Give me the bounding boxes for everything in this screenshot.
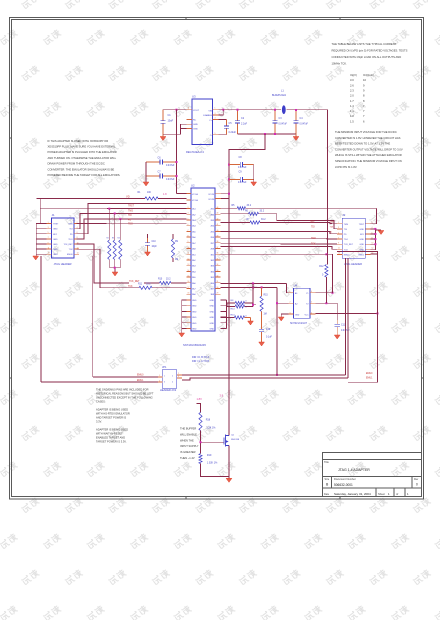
resistor R10 33.2 bbox=[144, 279, 171, 285]
svg-text:5: 5 bbox=[188, 218, 189, 220]
svg-text:33.2: 33.2 bbox=[146, 284, 151, 286]
wire VOUT to C1 bbox=[163, 109, 187, 111]
svg-text:VCCA: VCCA bbox=[192, 193, 198, 196]
svg-text:3.0: 3.0 bbox=[350, 78, 354, 82]
svg-text:GND: GND bbox=[53, 229, 58, 231]
svg-text:VCCA: VCCA bbox=[192, 199, 198, 202]
svg-text:GND: GND bbox=[53, 239, 58, 241]
svg-text:GND: GND bbox=[53, 249, 58, 251]
svg-text:TDI: TDI bbox=[128, 215, 132, 217]
svg-text:8: 8 bbox=[188, 236, 189, 238]
svg-text:7: 7 bbox=[48, 237, 49, 239]
svg-text:37: 37 bbox=[217, 247, 219, 249]
svg-text:R2: R2 bbox=[107, 238, 109, 240]
svg-text:2.6: 2.6 bbox=[350, 83, 354, 87]
svg-text:TMS: TMS bbox=[310, 222, 315, 224]
svg-text:CASES:: CASES: bbox=[96, 400, 106, 404]
svg-text:3: 3 bbox=[159, 380, 160, 382]
svg-text:0.22uF: 0.22uF bbox=[229, 131, 237, 134]
svg-text:3: 3 bbox=[48, 227, 49, 229]
wire rail row B7 bbox=[221, 246, 338, 249]
svg-text:ADAPTER IS BEING USED: ADAPTER IS BEING USED bbox=[96, 408, 128, 412]
svg-text:7: 7 bbox=[188, 230, 189, 232]
svg-text:TDI: TDI bbox=[344, 229, 348, 231]
svg-text:GND: GND bbox=[53, 254, 58, 256]
svg-text:KEY: KEY bbox=[53, 234, 58, 236]
svg-text:5: 5 bbox=[215, 133, 216, 135]
svg-text:34: 34 bbox=[217, 264, 219, 266]
net labels right rails 2 bbox=[311, 238, 316, 246]
svg-text:36: 36 bbox=[217, 253, 219, 255]
ground below right caps bbox=[251, 182, 257, 186]
svg-text:0.047uF: 0.047uF bbox=[238, 167, 247, 169]
svg-text:VD: VD bbox=[126, 194, 130, 198]
svg-text:16: 16 bbox=[188, 281, 190, 283]
svg-text:R15: R15 bbox=[264, 295, 269, 297]
wire pull resistor bottom bar bbox=[109, 267, 120, 272]
svg-text:C10: C10 bbox=[152, 241, 157, 243]
svg-text:UNCONNECTED EXCEPT IN THE FOLL: UNCONNECTED EXCEPT IN THE FOLLOWING bbox=[96, 396, 153, 400]
ground below pull resistors bbox=[112, 272, 118, 276]
svg-text:SPECIFICATION. THE MINIMUM VO: SPECIFICATION. THE MINIMUM VOLTAGE INPUT… bbox=[335, 159, 402, 163]
svg-text:VIN: VIN bbox=[208, 111, 212, 113]
svg-text:LVPD PIN IS 1.8V.: LVPD PIN IS 1.8V. bbox=[335, 165, 357, 169]
svg-text:Vq(V): Vq(V) bbox=[350, 73, 357, 77]
capacitors C8/C9 0.047uF (VCCB decoupling) bbox=[229, 156, 254, 184]
svg-text:DIR =0, B TO A: DIR =0, B TO A bbox=[192, 356, 210, 359]
svg-text:1M: 1M bbox=[175, 259, 178, 261]
svg-text:Date: Date bbox=[324, 493, 330, 496]
wire R19 bottom to Q1 source bbox=[201, 464, 230, 477]
svg-text:5: 5 bbox=[338, 232, 339, 234]
svg-text:TDO: TDO bbox=[311, 238, 316, 240]
wire U3 gnd pins bbox=[163, 124, 187, 134]
svg-text:1: 1 bbox=[164, 376, 165, 378]
svg-text:13: 13 bbox=[48, 253, 50, 255]
svg-text:18: 18 bbox=[188, 293, 190, 295]
svg-text:11: 11 bbox=[48, 247, 50, 249]
svg-text:TARGET POWER IS 3.3V.: TARGET POWER IS 3.3V. bbox=[96, 440, 127, 444]
wire rail TRST bbox=[40, 208, 44, 210]
net label TCK bbox=[128, 286, 133, 288]
svg-text:TRST: TRST bbox=[53, 224, 59, 226]
wire right cap ground column bbox=[253, 165, 255, 182]
svg-text:U4: U4 bbox=[294, 284, 298, 288]
svg-text:TMS: TMS bbox=[68, 224, 73, 226]
ground below R13 bbox=[248, 321, 254, 325]
svg-text:GND: GND bbox=[360, 244, 365, 246]
svg-text:1.8V: 1.8V bbox=[197, 397, 203, 401]
inductor L1 BLM2P222A bbox=[272, 90, 286, 115]
svg-text:40: 40 bbox=[217, 230, 219, 232]
svg-text:3: 3 bbox=[164, 382, 165, 384]
svg-text:0.047uF: 0.047uF bbox=[238, 182, 247, 184]
svg-text:4: 4 bbox=[311, 313, 312, 315]
svg-text:CONDUCTED WITH 33pF LOAD ON AL: CONDUCTED WITH 33pF LOAD ON ALL OUTPUTS … bbox=[332, 55, 402, 59]
svg-text:3: 3 bbox=[215, 113, 216, 115]
wire rail row A1 bbox=[44, 208, 187, 210]
svg-text:of: of bbox=[396, 492, 398, 496]
net label TCK_RET bbox=[129, 281, 140, 283]
svg-text:6: 6 bbox=[188, 224, 189, 226]
wire 3.3V rail down right side bbox=[327, 110, 329, 265]
svg-text:JP1: JP1 bbox=[162, 365, 167, 369]
svg-text:14: 14 bbox=[77, 253, 79, 255]
voltage regulator U3 REG710EA-3.3 bbox=[186, 95, 219, 155]
svg-text:GND: GND bbox=[210, 300, 215, 302]
svg-text:BSS138: BSS138 bbox=[231, 439, 240, 441]
svg-text:10MHz TCK.: 10MHz TCK. bbox=[332, 61, 348, 65]
wire rail TCK B lower bbox=[221, 286, 278, 288]
svg-text:GND: GND bbox=[192, 323, 197, 325]
resistor R8 0 ohm bbox=[227, 300, 247, 305]
svg-text:BLM2P222A: BLM2P222A bbox=[272, 94, 286, 97]
wire R15 to C13 bbox=[261, 312, 263, 328]
svg-text:WITH HS-RTDX EMULATOR: WITH HS-RTDX EMULATOR bbox=[96, 412, 130, 416]
svg-text:VCCB: VCCB bbox=[208, 194, 214, 196]
svg-text:TCK_RET: TCK_RET bbox=[344, 244, 354, 246]
svg-text:J2: J2 bbox=[342, 213, 345, 217]
svg-text:WILL ENABLE: WILL ENABLE bbox=[180, 432, 197, 436]
wire 1.8V net from VOUT down bbox=[176, 110, 178, 162]
svg-text:2: 2 bbox=[290, 302, 291, 304]
connector J2 JTAG HEADER (target side) bbox=[337, 213, 373, 266]
svg-text:GND: GND bbox=[53, 244, 58, 246]
wire rail TRST B bbox=[246, 207, 377, 209]
svg-text:GND: GND bbox=[360, 229, 365, 231]
wire U2 right GND collect bbox=[221, 300, 227, 329]
svg-text:TCK: TCK bbox=[69, 249, 74, 251]
resistor R18 1.2K 1% bbox=[199, 412, 216, 430]
svg-text:THE BUFFER: THE BUFFER bbox=[180, 427, 196, 431]
wire ENABLE tie to VIN bbox=[219, 110, 224, 115]
svg-text:GND: GND bbox=[192, 317, 197, 319]
wire rail row A0 bbox=[77, 204, 187, 234]
wire chip 3B1 to U4 Y1 bbox=[221, 254, 333, 292]
wire U4 Y2 to C11 bbox=[315, 302, 337, 320]
wire TRST jog to J2 bbox=[371, 208, 377, 224]
net label 1.8V buffer bbox=[197, 397, 203, 401]
svg-text:GND: GND bbox=[193, 129, 198, 131]
svg-text:EMU1: EMU1 bbox=[366, 377, 373, 379]
svg-text:R19: R19 bbox=[207, 454, 212, 457]
svg-text:ENABLE: ENABLE bbox=[203, 114, 212, 117]
svg-text:1M: 1M bbox=[264, 314, 267, 316]
svg-text:14: 14 bbox=[188, 270, 190, 272]
svg-text:33.2: 33.2 bbox=[247, 205, 252, 207]
svg-text:CONVERTER. THE EMULATOR SHOUL: CONVERTER. THE EMULATOR SHOULD ALWAYS BE bbox=[48, 167, 115, 171]
svg-text:1.8: 1.8 bbox=[163, 193, 167, 196]
svg-text:TCK_RET: TCK_RET bbox=[63, 244, 73, 246]
wire divider mid bbox=[200, 431, 225, 454]
wire rail TMS B bbox=[259, 214, 338, 229]
connector JP1 HEADER 2X2 bbox=[158, 365, 182, 392]
svg-text:1.02K 1%: 1.02K 1% bbox=[207, 462, 218, 465]
wire link B rails bbox=[252, 283, 254, 304]
svg-text:TRST: TRST bbox=[359, 224, 365, 226]
ground below C4 bbox=[293, 134, 299, 141]
ground right of J2 bbox=[378, 231, 384, 235]
svg-text:DRAW POWER FROM THROUGH THE DC: DRAW POWER FROM THROUGH THE DC/DC bbox=[48, 162, 105, 166]
svg-text:30: 30 bbox=[217, 287, 219, 289]
svg-text:33.2: 33.2 bbox=[261, 219, 266, 221]
note: current table bbox=[350, 73, 374, 123]
net label EMU1 left bbox=[137, 380, 144, 382]
svg-text:1.4: 1.4 bbox=[350, 104, 354, 108]
svg-text:R10: R10 bbox=[158, 279, 163, 281]
connector J1 JTAG HEADER (emulator side) bbox=[47, 213, 80, 266]
wire rail row B4 bbox=[221, 231, 338, 233]
resistor R9 1M bbox=[171, 234, 178, 262]
wire cap bottom rail bbox=[238, 133, 297, 135]
svg-text:1.1: 1.1 bbox=[350, 109, 354, 113]
svg-text:U2: U2 bbox=[191, 184, 195, 188]
svg-text:Document Number: Document Number bbox=[334, 477, 356, 481]
svg-text:PD: PD bbox=[128, 219, 132, 221]
svg-text:6: 6 bbox=[311, 291, 312, 293]
svg-text:REG710EA-3.3: REG710EA-3.3 bbox=[186, 150, 204, 154]
svg-text:15: 15 bbox=[188, 276, 190, 278]
ground below C10 bbox=[145, 250, 151, 256]
net label EMU0 right bbox=[366, 373, 373, 375]
svg-text:WHICH IS STILL WITHIN THE ATTA: WHICH IS STILL WITHIN THE ATTACHED EMULA… bbox=[335, 153, 402, 157]
svg-text:0.047uF: 0.047uF bbox=[300, 124, 309, 126]
svg-text:17: 17 bbox=[188, 287, 190, 289]
wire VCCB feed bbox=[228, 134, 265, 200]
wire rail TCK_RET B bbox=[221, 282, 289, 292]
svg-text:11: 11 bbox=[338, 248, 340, 250]
svg-text:GND: GND bbox=[192, 329, 197, 331]
wire J1 EMU0 vertical down bbox=[92, 256, 94, 377]
title block bbox=[323, 453, 422, 497]
svg-text:THE TABLE BELOW LISTS THE TYPI: THE TABLE BELOW LISTS THE TYPICAL CURREN… bbox=[332, 42, 397, 46]
resistor R14 0 ohm bbox=[227, 305, 247, 310]
svg-text:4: 4 bbox=[215, 118, 216, 120]
svg-text:JTAG HEADER: JTAG HEADER bbox=[54, 262, 72, 266]
svg-text:5: 5 bbox=[48, 232, 49, 234]
capacitor C4 0.047uF bbox=[293, 109, 308, 134]
resistor R6 33.2 (TMS B) bbox=[221, 210, 265, 215]
wire EMU loop right bbox=[337, 252, 378, 383]
svg-text:GND: GND bbox=[210, 323, 215, 325]
svg-text:506632-0001: 506632-0001 bbox=[334, 483, 353, 487]
wire EMU1 rail right bbox=[182, 378, 348, 380]
net labels left rails bbox=[128, 206, 135, 226]
svg-text:2: 2 bbox=[178, 373, 179, 375]
svg-text:THE GND/EMU0 PINS ARE INCLUDED: THE GND/EMU0 PINS ARE INCLUDED FOR bbox=[96, 388, 149, 392]
svg-text:13: 13 bbox=[338, 253, 340, 255]
svg-text:VCC: VCC bbox=[305, 315, 310, 317]
svg-text:11: 11 bbox=[188, 253, 190, 255]
wire R8/R14 join bbox=[245, 303, 256, 307]
svg-text:EMU0: EMU0 bbox=[67, 254, 73, 256]
wire left caps to VCCA bbox=[176, 161, 187, 194]
svg-text:CONVERTER IS 1.8V. HOWEVER TH: CONVERTER IS 1.8V. HOWEVER THE CIRCUIT H… bbox=[335, 136, 401, 140]
svg-text:GND: GND bbox=[210, 306, 215, 308]
wire VD rail bbox=[37, 197, 145, 199]
svg-text:42: 42 bbox=[217, 218, 219, 220]
svg-text:POWERED BEFORE THE TARGET FOR: POWERED BEFORE THE TARGET FOR ALL EMULAT… bbox=[48, 173, 121, 177]
svg-text:9: 9 bbox=[338, 243, 339, 245]
capacitor C13 0.1uF bbox=[259, 327, 272, 339]
resistor R12 0 bbox=[319, 253, 328, 303]
svg-text:6: 6 bbox=[188, 108, 189, 110]
capacitor C1 10uF bbox=[160, 110, 173, 135]
wire rail TCK B bbox=[260, 223, 337, 224]
svg-text:AND TURNED ON. OTHERWISE THE: AND TURNED ON. OTHERWISE THE EMULATOR WI… bbox=[48, 156, 117, 160]
svg-text:EMU0: EMU0 bbox=[366, 373, 373, 375]
svg-text:1.7: 1.7 bbox=[350, 99, 354, 103]
svg-text:ENABLED TARGET AND: ENABLED TARGET AND bbox=[96, 436, 125, 440]
wire U4 gnd pin bbox=[281, 314, 288, 317]
svg-text:R3: R3 bbox=[112, 238, 114, 240]
svg-text:3.3V.: 3.3V. bbox=[96, 420, 102, 424]
svg-text:Title: Title bbox=[324, 460, 329, 464]
svg-text:10: 10 bbox=[188, 247, 190, 249]
ground below U4 left bbox=[278, 317, 284, 321]
svg-text:HISTORICAL REASONS BUT SHOULD: HISTORICAL REASONS BUT SHOULD BE LEFT bbox=[96, 392, 154, 396]
svg-text:SN74AVCB324245: SN74AVCB324245 bbox=[183, 343, 206, 347]
wire TCK B vertical to EMU rail bbox=[276, 287, 289, 376]
ground below C11 bbox=[334, 331, 340, 339]
svg-text:TMS: TMS bbox=[128, 210, 133, 212]
svg-text:VCCB: VCCB bbox=[208, 199, 214, 201]
svg-text:EMU0: EMU0 bbox=[137, 374, 144, 376]
svg-text:TDO: TDO bbox=[128, 224, 133, 226]
svg-text:TCK: TCK bbox=[344, 249, 349, 251]
svg-text:10uF: 10uF bbox=[168, 120, 174, 123]
wire U4 VCC right bbox=[315, 312, 378, 314]
svg-text:2.3: 2.3 bbox=[350, 88, 354, 92]
svg-text:Saturday, January 31, 2004: Saturday, January 31, 2004 bbox=[334, 492, 371, 496]
capacitor C3 0.047uF bbox=[272, 109, 287, 134]
wire J1 left pins to ground bus bbox=[36, 224, 46, 255]
ground below C13 bbox=[259, 334, 265, 346]
resistor R13 0 ohm bbox=[221, 315, 248, 320]
sheet border frame bbox=[10, 18, 424, 500]
svg-text:TDI: TDI bbox=[330, 227, 334, 229]
wire R8 left join bbox=[226, 303, 228, 307]
svg-text:Size: Size bbox=[325, 478, 330, 481]
svg-text:AND TARGET POWER IS: AND TARGET POWER IS bbox=[96, 416, 126, 420]
svg-text:3: 3 bbox=[290, 313, 291, 315]
svg-text:R12: R12 bbox=[319, 266, 324, 268]
svg-text:0.047uF: 0.047uF bbox=[166, 179, 175, 181]
svg-text:GND: GND bbox=[295, 315, 300, 317]
wire R13 to ground bbox=[245, 318, 251, 322]
capacitors C6/C7 0.047uF (VCCA decoupling) bbox=[146, 157, 177, 181]
svg-text:GND: GND bbox=[360, 239, 365, 241]
svg-text:GND: GND bbox=[193, 124, 198, 126]
svg-text:GND: GND bbox=[210, 311, 215, 313]
svg-text:XDS510PP PLUS, MAKE SURE YOU H: XDS510PP PLUS, MAKE SURE YOU HAVE EXTERN… bbox=[48, 145, 116, 149]
svg-text:0.047uF: 0.047uF bbox=[279, 124, 288, 126]
svg-text:10pF: 10pF bbox=[152, 246, 158, 248]
wire R1 to VCCA2 bbox=[158, 197, 187, 199]
svg-text:4: 4 bbox=[188, 213, 189, 215]
svg-text:J1: J1 bbox=[52, 213, 55, 217]
net label VD bbox=[126, 194, 130, 198]
wire divider top bbox=[197, 403, 201, 412]
svg-text:29: 29 bbox=[217, 293, 219, 295]
svg-text:EMU1: EMU1 bbox=[358, 254, 364, 256]
svg-text:3: 3 bbox=[338, 227, 339, 229]
wire 3.3 net vertical to buffer enable bbox=[220, 200, 230, 436]
svg-text:HEADER 2X2: HEADER 2X2 bbox=[160, 388, 177, 392]
svg-text:2: 2 bbox=[172, 376, 173, 378]
wire rail row B5 bbox=[221, 237, 338, 240]
svg-text:R18: R18 bbox=[206, 419, 211, 422]
svg-text:35: 35 bbox=[217, 258, 219, 260]
svg-text:IF THIS ADAPTER IS USED WITH X: IF THIS ADAPTER IS USED WITH XDS510PP OR bbox=[48, 139, 109, 143]
ground below U2 left GND bbox=[179, 333, 185, 337]
note: left adapter usage paragraph bbox=[48, 139, 121, 177]
svg-text:TMS: TMS bbox=[330, 222, 335, 224]
svg-text:14: 14 bbox=[372, 253, 374, 255]
svg-text:3.3: 3.3 bbox=[220, 394, 224, 398]
svg-text:TCK: TCK bbox=[311, 244, 316, 246]
note: buffer enable paragraph bbox=[180, 427, 199, 461]
wire U4 Y1 up bbox=[315, 292, 333, 294]
svg-text:GND: GND bbox=[210, 317, 215, 319]
svg-text:44: 44 bbox=[217, 207, 219, 209]
svg-text:33: 33 bbox=[217, 270, 219, 272]
svg-text:U3: U3 bbox=[192, 95, 196, 99]
net label EMU0 left bbox=[137, 374, 144, 376]
wire EMU0 rail left bbox=[93, 376, 158, 378]
svg-text:THE MINIMUM INPUT VOLTAGE FOR: THE MINIMUM INPUT VOLTAGE FOR THE DC/DC bbox=[335, 130, 397, 134]
svg-text:KEY: KEY bbox=[360, 234, 365, 236]
svg-text:32: 32 bbox=[217, 276, 219, 278]
note: top right current table paragraph bbox=[332, 42, 408, 66]
wire EMU0 rail right bbox=[182, 374, 346, 376]
resistor R5 33.2 (TRST B) bbox=[221, 205, 252, 210]
svg-text:GND: GND bbox=[192, 311, 197, 313]
svg-text:TDI: TDI bbox=[69, 229, 73, 231]
svg-text:INPUT SUPPLY: INPUT SUPPLY bbox=[180, 444, 199, 448]
svg-text:TCK_RET: TCK_RET bbox=[129, 281, 140, 283]
svg-text:R4: R4 bbox=[118, 238, 120, 240]
svg-text:4: 4 bbox=[172, 382, 173, 384]
svg-text:REQUIRED ON LVPD (pin 5) FOR R: REQUIRED ON LVPD (pin 5) FOR RATED VOLTA… bbox=[332, 48, 408, 52]
svg-text:33.2: 33.2 bbox=[166, 279, 171, 281]
resistor R19 1.02K 1% bbox=[199, 454, 218, 465]
svg-text:1.2K 1%: 1.2K 1% bbox=[206, 427, 216, 430]
transistor Q1 BSS138 bbox=[224, 435, 240, 447]
wire R11 to U2 bbox=[152, 287, 187, 289]
wire J1 TCK_RET loop bbox=[77, 244, 129, 283]
svg-text:GND: GND bbox=[210, 329, 215, 331]
svg-text:TCK: TCK bbox=[128, 286, 133, 288]
svg-text:39: 39 bbox=[217, 236, 219, 238]
svg-text:SN74LVC2G07: SN74LVC2G07 bbox=[290, 322, 308, 325]
svg-text:IS GREATER: IS GREATER bbox=[180, 450, 196, 454]
svg-text:CONVERTER OUTPUT VOLTAGE WILL: CONVERTER OUTPUT VOLTAGE WILL DROP TO 3.… bbox=[335, 147, 403, 151]
svg-text:TDI: TDI bbox=[311, 227, 315, 229]
svg-text:BEEN TESTED DOWN TO 1.5V. AT: BEEN TESTED DOWN TO 1.5V. AT 1.5V THE bbox=[335, 142, 390, 146]
capacitor C2 2.2uF bbox=[235, 109, 248, 134]
svg-text:ADAPTER IS BEING USED: ADAPTER IS BEING USED bbox=[96, 428, 128, 432]
svg-text:PD: PD bbox=[329, 232, 332, 234]
ground below J1 bbox=[33, 254, 39, 260]
ground below Q1 source bbox=[226, 476, 232, 482]
svg-text:1: 1 bbox=[48, 222, 49, 224]
svg-text:10: 10 bbox=[363, 78, 366, 82]
svg-text:13: 13 bbox=[188, 264, 190, 266]
ground below left caps bbox=[143, 182, 149, 186]
svg-text:3: 3 bbox=[188, 207, 189, 209]
svg-text:2.0: 2.0 bbox=[350, 94, 354, 98]
